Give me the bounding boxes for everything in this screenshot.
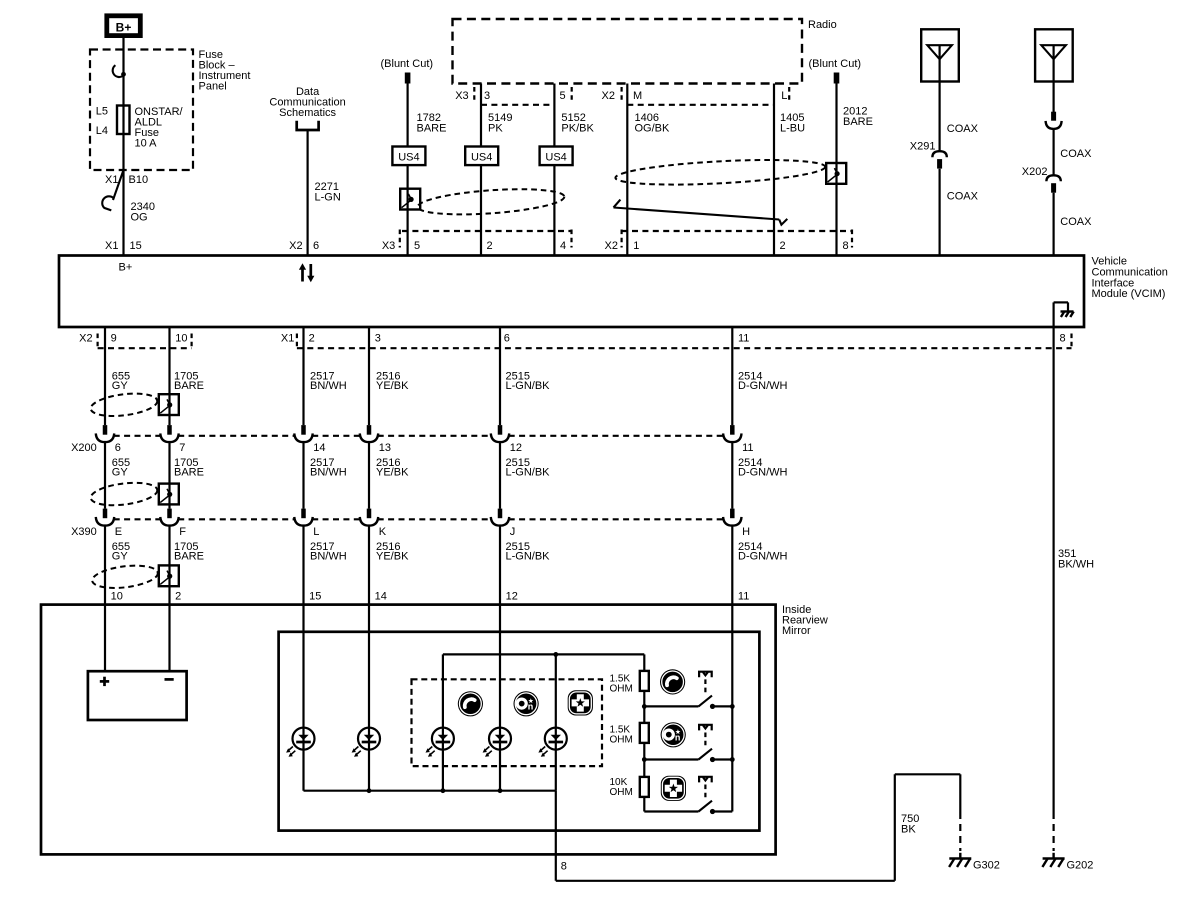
wire 655 GY segment 1 [104,327,106,425]
label X202 [1022,166,1048,178]
wire 2516 YE/BK segment 2 [368,442,370,509]
svg-text:8: 8 [561,861,567,873]
svg-text:X202: X202 [1022,166,1048,178]
svg-text:YE/BK: YE/BK [376,467,409,479]
pin label 12 (X200) [510,442,522,454]
wire label 2515 L-GN/BK (row 3) [506,541,551,563]
connector X200 terminal pin 12 [491,425,509,442]
wire 1705 BARE segment 3 [168,526,170,672]
inner electronics box [279,632,760,831]
LED D4 [483,728,511,757]
switch SW2 contact dot [710,757,715,762]
svg-text:13: 13 [379,442,391,454]
wire 750 BK top run [895,773,961,775]
mirror pin label 14 [375,591,387,603]
svg-text:H: H [742,526,750,538]
speaker + terminal [100,677,109,686]
icon for switch SW3 [661,776,686,801]
svg-text:OG/BK: OG/BK [635,123,671,135]
svg-text:10: 10 [111,591,123,603]
svg-text:L5: L5 [96,106,108,118]
svg-text:US4: US4 [545,151,566,163]
bidirectional data arrows [299,263,315,282]
svg-text:6: 6 [115,442,121,454]
switch SW3 contact dot [710,809,715,814]
net label B+ inside module [119,262,133,274]
svg-text:F: F [179,526,186,538]
svg-text:GY: GY [112,380,129,392]
svg-text:X390: X390 [71,526,97,538]
label (Blunt Cut) left [381,58,434,70]
svg-text:X2: X2 [289,240,302,252]
svg-text:B+: B+ [116,21,132,35]
mirror pin label 15 [309,591,321,603]
wire 2516 YE/BK segment 3 [368,526,370,791]
resistor R2 1.5K [640,723,649,743]
svg-text:YE/BK: YE/BK [376,551,409,563]
svg-text:5: 5 [560,90,566,102]
svg-text:US4: US4 [398,151,419,163]
label COAX (A1 lower) [947,191,979,203]
svg-text:E: E [115,526,122,538]
svg-text:OG: OG [131,212,148,224]
svg-text:COAX: COAX [1060,148,1092,160]
svg-text:D-GN/WH: D-GN/WH [738,551,788,563]
connector X200 dashed line [114,435,724,437]
icon for switch SW2 [661,722,686,747]
wire 2517 BN/WH segment 1 [302,327,304,425]
svg-text:(Blunt Cut): (Blunt Cut) [381,58,434,70]
svg-text:GY: GY [112,467,129,479]
switch SW1 actuator [699,672,712,695]
wire label 2517 BN/WH (row 1) [310,371,347,393]
switch SW2 actuator [699,725,712,748]
label Data Communication Schematics [269,86,345,119]
svg-text:X2: X2 [602,90,615,102]
resistor R3 10K [640,777,649,797]
label Radio [808,19,837,31]
wire label 655 GY (row 2) [112,457,130,479]
svg-text:L4: L4 [96,125,108,137]
junction dot at fuse block feed [121,72,126,77]
label 351 BK/WH [1058,548,1094,571]
pin label 13 (X200) [379,442,391,454]
connector X390 terminal pin J [491,509,509,526]
wire 5149 PK to VCIM pin X3-2 [480,84,482,256]
svg-text:B10: B10 [129,174,149,186]
wire label 2516 YE/BK (row 2) [376,457,409,479]
pin label 2 (top X3) [487,240,493,252]
svg-text:10 A: 10 A [135,138,158,150]
connector X200 terminal pin 14 [294,425,312,442]
splice S1 on wire 1782 [400,189,420,210]
coax wire A2 middle segment [1052,129,1054,176]
svg-text:L-GN/BK: L-GN/BK [506,551,551,563]
switch SW3 wire from resistor [644,810,698,812]
wire label 2514 D-GN/WH (row 3) [738,541,788,563]
svg-text:2: 2 [780,240,786,252]
pin label 6 (bottom X1) [504,333,510,345]
pin label L (X390) [313,526,319,538]
svg-text:2: 2 [175,591,181,603]
switch SW1 wire from resistor [644,705,698,707]
pin label 11 (bottom X1) [738,333,749,345]
wire 750 BK drop to ground [959,774,961,812]
wire 1405 L-BU to VCIM pin X2-2 [773,84,775,256]
connector X390 terminal pin F [160,509,178,526]
label G302 [973,860,1000,872]
label ONSTAR/ALDL Fuse 10 A [135,106,184,150]
pin label 10 (bottom X2) [175,333,191,349]
svg-text:1: 1 [633,240,639,252]
junction dot on wire 2514 row 2 [730,757,735,762]
svg-text:BARE: BARE [843,116,873,128]
wire label 2514 D-GN/WH (row 2) [738,457,788,479]
svg-text:(Blunt Cut): (Blunt Cut) [809,58,862,70]
label X1 B10 [105,174,148,186]
svg-text:Module (VCIM): Module (VCIM) [1092,288,1166,300]
svg-text:X3: X3 [382,240,395,252]
svg-text:US4: US4 [471,151,492,163]
svg-text:BK/WH: BK/WH [1058,559,1094,571]
svg-text:BN/WH: BN/WH [310,551,347,563]
svg-text:BARE: BARE [174,380,204,392]
bottom connector dashed line X1 [297,347,1072,349]
pin label X2 6 on VCIM [289,240,319,252]
label 1.5K OHM (R2) [610,725,633,746]
svg-text:Radio: Radio [808,19,837,31]
svg-text:X3: X3 [455,90,468,102]
wire label 655 GY (row 3) [112,541,130,563]
svg-text:6: 6 [313,240,319,252]
wire label 1705 BARE (row 1) [174,371,204,393]
top connector dashed line X2 [622,230,852,232]
resistor R1 1.5K [640,671,649,691]
wire label 2517 BN/WH (row 3) [310,541,347,563]
internal chassis ground symbol [1061,312,1074,318]
wire label 655 GY (row 1) [112,371,130,393]
pin label J (X390) [510,526,516,538]
svg-text:G302: G302 [973,860,1000,872]
connector X390 terminal pin K [360,509,378,526]
fuse F1 ONSTAR/ALDL 10A [117,106,130,135]
label 2340 OG [131,201,155,224]
wire R2-R3 [643,743,645,777]
pin label H (X390) [742,526,750,538]
off-page bracket to data communication schematics [297,121,319,130]
wire 2517 BN/WH segment 2 [302,442,304,509]
switch SW1 contact dot [710,704,715,709]
pin label 8 (bottom X1) [1060,333,1072,349]
junction dot R1-R2 [642,704,647,709]
svg-text:n: n [528,702,534,712]
splice S5 on wire 1705 [159,565,179,586]
label Inside Rearview Mirror [782,604,828,637]
wire 2012 BARE to VCIM pin X2-8 [835,84,837,256]
shield US4 on wire 1782 [392,147,425,166]
coax wire from X202 to VCIM [1052,193,1054,256]
wire 750 BK dashed tail [959,812,961,851]
wire 655 GY segment 3 [104,526,106,672]
label (Blunt Cut) right [809,58,862,70]
svg-text:BK: BK [901,824,916,836]
radio dashed outline [453,19,803,84]
svg-text:GY: GY [112,551,129,563]
pin label 11 (X200) [742,442,753,454]
svg-text:COAX: COAX [1060,216,1092,228]
connector X1 pin B10 branch [113,170,124,200]
inline connector on antenna A2 lead [1046,112,1062,129]
pin label 7 (X200) [179,442,185,454]
svg-text:BN/WH: BN/WH [310,380,347,392]
switch SW2 wire from resistor [644,758,698,760]
icon medical cross (dashed box) [568,690,593,715]
pin label F (X390) [179,526,186,538]
label 10K OHM (R3) [610,777,633,798]
resistor chain feed [643,654,645,671]
splice S4 on wire 1705 [159,484,179,505]
svg-text:6: 6 [504,333,510,345]
svg-text:9: 9 [111,333,117,345]
svg-text:YE/BK: YE/BK [376,380,409,392]
wire 2271 L-GN to VCIM pin X2-6 [307,130,309,256]
svg-text:X1: X1 [281,333,294,345]
svg-text:X291: X291 [910,141,936,153]
junction dot on wire 2514 row 1 [730,704,735,709]
svg-text:COAX: COAX [947,191,979,203]
pin label 6 (X200) [115,442,121,454]
svg-text:5: 5 [414,240,420,252]
junction dots on bottom bus [367,788,503,793]
wire label 2516 YE/BK (row 1) [376,371,409,393]
label 5152 PK/BK [561,112,594,135]
svg-text:15: 15 [130,240,142,252]
LED3 feed wire [442,654,444,790]
pin label X2 9 (bottom) [79,333,117,349]
coax wire from antenna A1 upper segment [938,45,940,151]
wire label 2516 YE/BK (row 3) [376,541,409,563]
label L4 [96,125,108,137]
label X200 [71,442,97,454]
svg-text:G202: G202 [1067,860,1094,872]
LED D2 [352,728,380,757]
label COAX (A1 upper) [947,123,979,135]
wire label 1705 BARE (row 2) [174,457,204,479]
fuse block dashed outline [90,50,193,171]
label 2271 L-GN [315,181,341,204]
LED D1 [286,728,314,757]
svg-text:4: 4 [560,240,566,252]
wire 655 GY segment 2 [104,442,106,509]
switch SW1 output wire [713,705,733,707]
fuse block terminal clip (lower) [102,196,113,210]
svg-text:BARE: BARE [174,467,204,479]
wire label 2515 L-GN/BK (row 2) [506,457,551,479]
pin label X1 15 on VCIM [105,240,142,252]
wire label 2515 L-GN/BK (row 1) [506,371,551,393]
label L5 [96,106,108,118]
svg-text:11: 11 [742,442,753,454]
switch SW2 blade [699,749,713,760]
label 1.5K OHM (R1) [610,674,633,695]
svg-text:14: 14 [313,442,325,454]
blunt cut cap on wire 2012 [834,73,840,84]
label Fuse Block - Instrument Panel [199,49,251,93]
svg-text:2: 2 [309,333,315,345]
mirror pin label 10 [111,591,123,603]
switch SW3 actuator [699,777,712,800]
svg-text:L-GN: L-GN [315,192,341,204]
switch SW3 blade [699,801,713,812]
svg-text:12: 12 [506,591,518,603]
svg-text:8: 8 [1060,333,1066,345]
wire 2515 L-GN/BK segment 3 [499,526,501,791]
svg-text:L-BU: L-BU [780,123,805,135]
label 1782 BARE [417,112,447,135]
svg-text:L-GN/BK: L-GN/BK [506,380,551,392]
connector X200 terminal pin 7 [160,425,178,442]
svg-text:11: 11 [738,333,749,345]
svg-text:D-GN/WH: D-GN/WH [738,467,788,479]
svg-text:PK: PK [488,123,503,135]
svg-text:14: 14 [375,591,387,603]
pin label X2 1 (top) [605,230,640,253]
pin label 14 (X200) [313,442,325,454]
coax wire from X291 to VCIM [938,169,940,256]
svg-text:OHM: OHM [610,787,633,798]
svg-text:15: 15 [309,591,321,603]
mirror pin label 2 [175,591,181,603]
pin label X3 5 (top) [382,230,420,253]
wire 2514 D-GN/WH segment 3 [731,526,733,812]
pin label 8 (mirror) [561,861,567,873]
top connector dashed line X3 [402,230,572,232]
twisted loop row1 (655/1705) [89,390,158,419]
fuse block terminal clip (upper) [113,65,123,77]
internal ground link to pin X1-8 [1054,302,1068,326]
svg-text:X2: X2 [605,240,618,252]
svg-text:Schematics: Schematics [279,107,336,119]
svg-text:X1: X1 [105,240,118,252]
inline connector X202 [1046,175,1060,192]
junction dot R2-R3 [642,757,647,762]
connector X390 dashed line [114,518,724,520]
ground G202 [1042,853,1064,867]
pin label 2 (top X2) [780,240,786,252]
label Vehicle Communication Interface Module (VCIM) [1092,256,1168,301]
svg-text:11: 11 [738,591,749,603]
icon OnStar (dashed box) [514,691,539,716]
svg-text:Mirror: Mirror [782,625,811,637]
wire 750 BK bottom run [556,880,895,882]
wire 2516 YE/BK segment 1 [368,327,370,425]
wire 2515 L-GN/BK segment 1 [499,327,501,425]
speaker box [88,671,187,720]
label COAX (A2 upper) [1060,148,1092,160]
pin label K (X390) [379,526,387,538]
wire R3 to switch row 3 [643,797,645,812]
svg-text:K: K [379,526,387,538]
dashed indicator group box [412,679,603,766]
connector X200 terminal pin 6 [96,425,114,442]
svg-text:12: 12 [510,442,522,454]
mirror ground wire pin 8 vertical [555,791,557,881]
inline connector X291 [932,151,946,168]
LED5 feed wire [555,654,557,790]
wire 2515 L-GN/BK segment 2 [499,442,501,509]
junction on top bus [553,652,558,657]
wire label 2517 BN/WH (row 2) [310,457,347,479]
pin label 4 (top X3) [560,230,572,253]
pin label 8 (top X2) [843,230,853,253]
svg-text:3: 3 [484,90,490,102]
svg-text:10: 10 [175,333,187,345]
label 1406 OG/BK [635,112,671,135]
label X291 [910,141,936,153]
inside rearview mirror box [41,605,776,855]
splice S2 on wire 2012 [826,163,846,184]
connector X390 terminal pin L [294,509,312,526]
svg-text:L: L [313,526,319,538]
icon phone (dashed box) [458,691,483,716]
wire 1782 BARE to VCIM pin X3-5 [407,84,409,256]
shield US4 on wire 5152 [540,147,573,166]
svg-text:Panel: Panel [199,81,227,93]
top bus wire [443,653,644,655]
svg-text:PK/BK: PK/BK [561,123,594,135]
wire R1-R2 [643,691,645,723]
connector X200 terminal pin 11 [723,425,741,442]
pin label X1 2 (bottom) [281,333,315,349]
svg-text:BARE: BARE [417,123,447,135]
coax wire from antenna A2 upper segment [1052,45,1054,112]
LED D5 [538,728,566,757]
svg-text:L: L [781,90,787,102]
svg-text:D-GN/WH: D-GN/WH [738,380,788,392]
antenna A1 symbol [921,29,959,81]
wire 1705 BARE segment 2 [168,442,170,509]
svg-text:J: J [510,526,516,538]
svg-text:3: 3 [375,333,381,345]
wire 1406 OG/BK to VCIM pin X2-1 [626,84,628,256]
svg-text:X1: X1 [105,174,118,186]
svg-text:OHM: OHM [610,735,633,746]
label 2012 BARE [843,106,873,129]
svg-text:BARE: BARE [174,551,204,563]
twisted-leads arrow [614,200,788,225]
wire 351 BK/WH from VCIM pin X1-8 [1052,327,1054,812]
wire label 2514 D-GN/WH (row 1) [738,371,788,393]
LED D3 [426,728,454,757]
svg-text:7: 7 [179,442,185,454]
speaker - terminal [165,678,174,681]
splice S3 on wire 1705 [159,394,179,415]
twisted loop row2 (655/1705) [89,479,158,508]
svg-text:OHM: OHM [610,684,633,695]
wire 5152 PK/BK to VCIM pin X3-4 [553,84,555,256]
pin label E (X390) [115,526,122,538]
label G202 [1067,860,1094,872]
connector X390 terminal pin E [96,509,114,526]
ground G302 [949,853,971,867]
wire 2517 BN/WH segment 3 [302,526,304,791]
mirror pin label 12 [506,591,518,603]
label X390 [71,526,97,538]
label 750 BK [901,813,919,836]
bottom connector dashed line X2 [98,347,192,349]
battery feed terminal B+ [107,16,141,36]
wire 2514 D-GN/WH segment 2 [731,442,733,509]
